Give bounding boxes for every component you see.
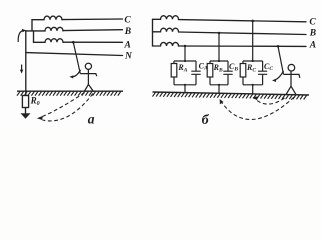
- node tap dots right: [184, 45, 187, 48]
- winding T1c phase A (left): [34, 39, 64, 43]
- resistor RB branch: [209, 61, 211, 85]
- node tap on line A left: [72, 41, 75, 44]
- ground electrode arrow: [21, 114, 30, 119]
- winding T1a phase C (left): [32, 16, 62, 20]
- wire star link B level to A: [33, 31, 35, 42]
- group 3 earth stub: [252, 85, 254, 94]
- node tap on A for person right: [277, 45, 280, 48]
- node top bar junctions: [184, 60, 186, 62]
- wire below R0: [25, 108, 27, 115]
- dashed current path arcs in earth (right): [221, 97, 295, 119]
- current hook arrow at left person's hand: [72, 70, 81, 77]
- earth hatching left: [17, 91, 121, 95]
- winding T2b phase B (right): [153, 28, 179, 32]
- svg-text:A: A: [124, 40, 131, 50]
- wire neutral N left: [26, 53, 123, 56]
- neutral bus right: [152, 19, 154, 46]
- wire star link C to B level: [31, 20, 33, 31]
- group 3 bottom bar: [243, 84, 263, 86]
- wire tap to right person's hand: [278, 46, 284, 74]
- wire tap from A to group 1: [184, 46, 186, 61]
- dashed current path arcs in earth (left): [41, 93, 93, 121]
- group 1 earth stub: [184, 85, 186, 93]
- person right: [284, 64, 300, 94]
- winding T2a phase C (right): [153, 16, 179, 20]
- group 2 earth stub: [218, 85, 220, 94]
- group 1 top bar: [174, 60, 196, 62]
- resistor RC branch: [242, 61, 244, 85]
- wire tap from C to group 3: [252, 21, 254, 61]
- wire line C right: [179, 20, 307, 22]
- capacitor CA branch: [195, 61, 197, 85]
- capacitor CB branch: [227, 61, 229, 85]
- group 2 bottom bar: [210, 84, 228, 86]
- svg-text:B: B: [309, 28, 316, 38]
- group 2 top bar: [210, 60, 228, 62]
- svg-text:B: B: [124, 27, 131, 37]
- wire tap from B to group 2: [218, 33, 220, 61]
- wire line B right: [179, 32, 307, 35]
- svg-text:а: а: [88, 111, 95, 126]
- wire neutral bus down to earth: [25, 31, 27, 96]
- wire line B left: [63, 29, 123, 32]
- arrow into neutral point: [18, 30, 24, 42]
- wire line A right: [179, 45, 307, 47]
- earth surface right: [153, 92, 310, 95]
- current hook arrow at right person's hand: [274, 71, 283, 80]
- winding T2c phase A (right): [153, 42, 179, 46]
- group 1 bottom bar: [174, 84, 196, 86]
- svg-text:C: C: [309, 18, 316, 28]
- wire line A left: [63, 41, 123, 43]
- svg-text:б: б: [202, 113, 210, 128]
- wire tap to person's hand left: [73, 42, 80, 73]
- earth hatching right: [153, 92, 307, 99]
- capacitor CC branch: [262, 61, 264, 85]
- winding T1b phase B (left): [26, 27, 63, 31]
- group 3 top bar: [243, 60, 263, 62]
- resistor RA branch: [173, 61, 175, 85]
- svg-text:C: C: [124, 15, 131, 25]
- svg-text:N: N: [124, 51, 133, 61]
- person left: [80, 63, 97, 91]
- resistor R0 box: [22, 96, 28, 108]
- node bottom bar junctions: [184, 84, 186, 86]
- wire line C left: [62, 18, 123, 21]
- earth surface left: [17, 90, 123, 92]
- svg-text:A: A: [309, 40, 316, 50]
- current arrow I near bus: [21, 65, 23, 71]
